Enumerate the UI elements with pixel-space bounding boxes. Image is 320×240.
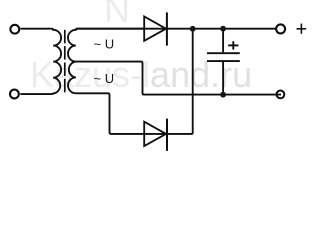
svg-text:N: N [104, 0, 130, 30]
svg-text:~ U: ~ U [94, 36, 115, 51]
svg-text:~ U: ~ U [94, 71, 115, 86]
